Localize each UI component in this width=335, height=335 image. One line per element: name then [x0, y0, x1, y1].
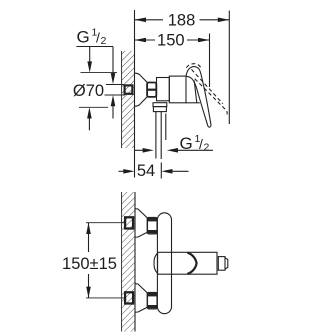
dim 150+-15 top extension line: [86, 222, 125, 224]
G1/2 lower arrow to union bottom: [111, 95, 116, 106]
outlet ring: [153, 107, 166, 112]
handle cylinder: [158, 252, 217, 274]
dim 188 left arrow: [135, 18, 147, 23]
svg-text:150: 150: [157, 32, 185, 50]
union square top extension line: [106, 84, 124, 86]
G1/2 leader vertical + arrow to union top: [112, 47, 114, 75]
dim 150 line: [135, 39, 156, 41]
dim 150+-15 down arrow: [86, 287, 91, 298]
dim 54 right extension line: [160, 163, 162, 179]
dim 188 right extension line: [228, 11, 230, 125]
union square (top view): [125, 85, 133, 93]
lever dashed (raised position) upper: [192, 69, 223, 103]
lever dashed top arc: [186, 64, 201, 69]
dim 150+-15 vertical line: [88, 223, 90, 252]
wall back line (top view): [121, 51, 123, 148]
body section A: [157, 78, 170, 101]
body capsule: [157, 213, 171, 314]
dim 150+-15 up arrow: [86, 223, 91, 234]
outlet block: [153, 103, 167, 107]
dim 54 left outside arrow: [119, 170, 126, 172]
svg-text:2: 2: [101, 35, 107, 47]
wall back line (bottom view): [121, 192, 123, 332]
handle end cap: [225, 258, 228, 269]
G1/2 lower dim: left segment + arrow: [135, 149, 145, 151]
bottom union ring: [148, 292, 158, 309]
dome base bottom: [186, 102, 200, 104]
dim 150 right extension line: [209, 34, 211, 88]
top union ring: [148, 217, 158, 234]
dim 150+-15 bottom extension line: [86, 297, 125, 299]
svg-text:/: /: [199, 136, 203, 152]
wall face line (bottom view): [134, 192, 136, 332]
wall hatch (bottom view): [122, 192, 135, 332]
dim 150 right arrow: [198, 38, 210, 43]
svg-text:G: G: [77, 28, 90, 47]
body section B: [169, 76, 186, 103]
top escutcheon cone: [135, 209, 147, 238]
svg-text:54: 54: [137, 162, 155, 180]
handle end knob: [218, 257, 225, 271]
outlet pipe right line: [165, 114, 167, 141]
outlet pipe middle line: [160, 112, 162, 159]
svg-text:2: 2: [204, 141, 210, 153]
dome right slant: [194, 81, 197, 103]
union nut (top view): [147, 83, 156, 97]
bottom union square: [125, 292, 133, 303]
lever dashed lower: [195, 79, 227, 115]
lever (solid): [186, 67, 211, 128]
svg-text:150±15: 150±15: [62, 255, 117, 273]
O70 bottom arrow: [88, 117, 90, 130]
bottom escutcheon cone: [135, 284, 147, 313]
handle dome bulge (left of capsule): [154, 253, 158, 274]
wall face line (top view): [134, 10, 136, 178]
dim 188 line: [135, 19, 164, 21]
O70 top extension line: [81, 72, 118, 74]
wall hatch (top view): [122, 51, 135, 148]
union square bottom extension line: [105, 94, 126, 96]
handle D-arc: [187, 253, 196, 274]
G1/2 underline leader: [77, 46, 114, 48]
escutcheon cone (top view): [135, 73, 148, 106]
dim 54 right outside arrow: [161, 169, 172, 174]
top union square: [125, 217, 133, 228]
svg-text:Ø70: Ø70: [73, 82, 104, 100]
svg-text:188: 188: [168, 11, 196, 29]
outlet pipe left line: [155, 112, 157, 159]
O70 top arrow: [89, 47, 91, 64]
dim 150 left arrow: [135, 38, 147, 43]
dim 188 right arrow: [218, 18, 230, 23]
O70 bottom extension line: [79, 106, 108, 108]
G1/2 lower dim: right arrow + line under text: [167, 148, 178, 153]
svg-text:/: /: [96, 30, 100, 46]
